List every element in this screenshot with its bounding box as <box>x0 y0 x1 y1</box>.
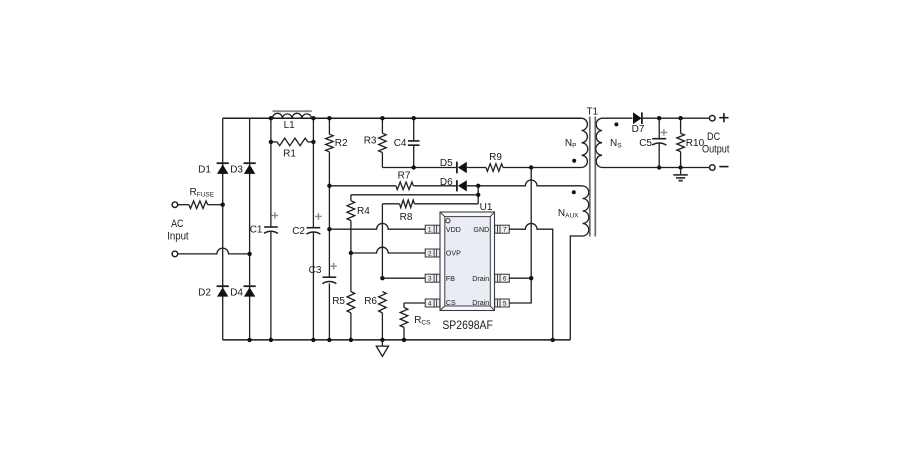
wire VDD row (hops over R8 column) <box>329 223 425 229</box>
wire pin 7 GND lead (hops over drain column) <box>509 223 552 339</box>
wire bridge left column (D1/D2 leg) <box>222 118 224 340</box>
wire snubber row R3 to D5 <box>382 167 457 169</box>
svg-text:D6: D6 <box>440 177 453 188</box>
wire bottom rail <box>223 339 571 341</box>
svg-text:7: 7 <box>503 227 507 234</box>
svg-text:C4: C4 <box>394 138 407 149</box>
svg-text:C2: C2 <box>292 226 305 237</box>
node top rail / L1 right junction <box>311 116 315 120</box>
svg-text:R6: R6 <box>364 296 377 307</box>
svg-text:R1: R1 <box>283 149 296 160</box>
svg-text:1: 1 <box>428 227 432 234</box>
pin 2 <box>425 249 440 257</box>
capacitor C4 <box>413 118 415 141</box>
pin 5 <box>495 299 510 307</box>
wire D7 to DC+ terminal <box>642 117 709 119</box>
node bottom rail / R6 junction <box>380 338 384 342</box>
node bottom rail / RCS junction <box>402 338 406 342</box>
wire D6 to aux winding (hops over drain line) <box>467 180 583 186</box>
ground (earth symbol below R10) <box>680 168 682 175</box>
AC input terminal bottom <box>172 251 178 257</box>
capacitor C2 <box>307 227 321 229</box>
svg-text:D5: D5 <box>440 158 453 169</box>
ground (signal ground triangle) <box>381 340 383 346</box>
node VDD row junction on C3 column <box>327 227 331 231</box>
pin 1 <box>425 225 440 233</box>
node top rail / R3 junction <box>380 116 384 120</box>
node R10 bottom junction <box>678 165 682 169</box>
node drain pins junction <box>529 276 533 280</box>
svg-text:Drain: Drain <box>472 299 489 307</box>
pin 7 <box>495 225 510 233</box>
wire AC live input to fuse <box>178 204 189 206</box>
node OVP / R4-R5 junction <box>349 251 353 255</box>
node C4 bottom junction <box>412 165 416 169</box>
svg-text:C1: C1 <box>250 224 263 235</box>
wire bridge right column (D3/D4 leg) <box>249 118 251 340</box>
diode D7 <box>633 112 642 124</box>
diode D4 <box>244 285 256 287</box>
capacitor C1 <box>264 226 278 228</box>
svg-text:4: 4 <box>428 301 432 308</box>
node R1 right junction <box>311 140 315 144</box>
svg-text:C5: C5 <box>639 138 652 149</box>
pin 6 <box>495 274 510 282</box>
svg-text:R8: R8 <box>400 212 413 223</box>
resistor R5 <box>350 253 352 292</box>
resistor RCS <box>403 303 405 308</box>
svg-text:VDD: VDD <box>446 226 461 234</box>
wire R4 top feed row <box>351 194 478 196</box>
wire C3 column lower <box>328 283 330 340</box>
resistor R1 <box>271 141 277 143</box>
wire pin 6 lead <box>509 277 531 279</box>
svg-text:R5: R5 <box>332 296 345 307</box>
wire NS top to D7 <box>602 117 633 119</box>
svg-text:3: 3 <box>428 276 432 283</box>
node bottom rail / GND return junction <box>551 338 555 342</box>
resistor R3 <box>381 118 383 133</box>
wire OVP row (hops over R8 column) <box>351 247 425 253</box>
node AC neutral to D3/D4 leg junction <box>247 252 251 256</box>
svg-text:OVP: OVP <box>446 250 461 258</box>
transformer auxiliary winding NAUX <box>583 186 589 236</box>
svg-text:Input: Input <box>167 230 188 242</box>
resistor R7 <box>329 185 395 187</box>
inductor L1 <box>273 110 312 112</box>
transformer T1 core <box>590 117 596 237</box>
op-amp U1 SP2698AF body <box>440 212 495 311</box>
svg-text:D7: D7 <box>632 124 645 135</box>
node fuse-bridge junction <box>221 203 225 207</box>
capacitor C3 <box>323 276 337 278</box>
wire D6 junction column <box>477 186 479 204</box>
resistor R6 <box>379 292 387 313</box>
diode D1 <box>217 162 229 164</box>
resistor RFUSE <box>189 201 208 209</box>
node bottom rail / C3 junction <box>327 338 331 342</box>
diode D3 <box>244 162 256 164</box>
node bottom rail / C2 junction <box>311 338 315 342</box>
wire drain column and pin 5 lead <box>509 168 531 304</box>
label + output <box>719 113 728 122</box>
resistor R9 <box>467 167 486 169</box>
node bottom rail / C1 junction <box>269 338 273 342</box>
diode D6 <box>456 180 458 191</box>
resistor R2 <box>328 118 330 134</box>
node top rail / L1 left junction <box>269 116 273 120</box>
svg-text:U1: U1 <box>480 202 493 213</box>
svg-text:R9: R9 <box>489 152 502 163</box>
svg-text:D4: D4 <box>230 287 243 298</box>
wire aux return <box>570 236 582 340</box>
wire C1 column upper <box>270 118 272 227</box>
svg-text:6: 6 <box>503 276 507 283</box>
svg-text:L1: L1 <box>284 120 296 131</box>
svg-text:C3: C3 <box>309 265 322 276</box>
diode D2 <box>217 285 229 287</box>
svg-text:R4: R4 <box>357 206 370 217</box>
wire CS row <box>404 302 425 304</box>
transformer secondary winding NS <box>596 118 602 167</box>
wire R8 column down from corner <box>381 204 383 278</box>
node drain / primary-return junction <box>529 165 533 169</box>
DC output terminal + <box>710 115 716 121</box>
wire C2 column lower <box>312 232 314 340</box>
wire C2 column upper <box>312 118 314 228</box>
diode D5 <box>456 162 458 174</box>
pin 4 <box>425 299 440 307</box>
svg-text:GND: GND <box>473 226 489 234</box>
svg-text:FB: FB <box>446 275 455 283</box>
node bottom rail / R5 junction <box>349 338 353 342</box>
wire R2/C3 column middle <box>328 186 330 277</box>
svg-text:SP2698AF: SP2698AF <box>442 318 493 332</box>
svg-text:AC: AC <box>171 218 183 230</box>
node R10 top junction <box>678 116 682 120</box>
svg-text:5: 5 <box>503 301 507 308</box>
node C5 top junction <box>657 116 661 120</box>
wire NS bottom to DC- terminal <box>602 167 710 169</box>
svg-text:DC: DC <box>707 131 720 143</box>
resistor R8 <box>382 203 399 205</box>
svg-text:D3: D3 <box>230 165 243 176</box>
wire top rail (bridge output to transformer primary) <box>223 117 582 119</box>
resistor R4 <box>350 195 352 201</box>
transformer primary winding NP <box>582 118 588 167</box>
wire NP bottom to drain node <box>531 167 581 169</box>
wire C1 column lower <box>270 231 272 340</box>
resistor R10 <box>680 118 682 133</box>
svg-text:CS: CS <box>446 299 456 307</box>
node R4 feed junction <box>476 193 480 197</box>
svg-text:T1: T1 <box>586 107 598 118</box>
node NAUX polarity dot <box>572 190 576 194</box>
node R2 bottom / R7 row junction <box>327 184 331 188</box>
node FB / R6 junction <box>380 276 384 280</box>
svg-text:R3: R3 <box>364 136 377 147</box>
svg-text:D1: D1 <box>198 165 211 176</box>
wire FB row <box>382 277 425 279</box>
svg-text:D2: D2 <box>198 287 211 298</box>
AC input terminal top <box>172 202 178 208</box>
svg-text:R7: R7 <box>398 171 411 182</box>
node top rail / C4 junction <box>412 116 416 120</box>
wire AC neutral input (hops over D1/D2 leg) <box>178 248 250 254</box>
node bottom rail / D4 leg junction <box>247 338 251 342</box>
pin 3 <box>425 274 440 282</box>
capacitor C5 <box>658 118 660 139</box>
svg-text:R2: R2 <box>335 138 348 149</box>
svg-text:Output: Output <box>702 144 729 156</box>
node D6 output junction <box>476 184 480 188</box>
svg-text:Drain: Drain <box>472 275 489 283</box>
node top rail / R2 junction <box>327 116 331 120</box>
node R1 left junction <box>269 140 273 144</box>
wire fuse to bridge node <box>208 204 223 206</box>
label - output <box>719 166 728 168</box>
node C5 bottom junction <box>657 165 661 169</box>
node NP polarity dot <box>572 159 576 163</box>
svg-text:2: 2 <box>428 251 432 258</box>
DC output terminal - <box>710 165 716 171</box>
node NS polarity dot <box>614 122 618 126</box>
